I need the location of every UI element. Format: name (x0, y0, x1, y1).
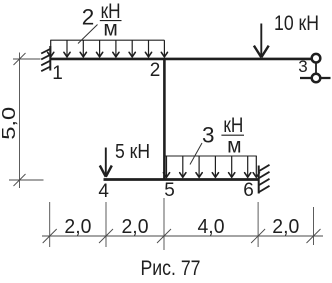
svg-text:2: 2 (150, 60, 161, 81)
svg-text:м: м (227, 135, 241, 158)
pointer line for 3 kN/m (190, 143, 202, 165)
svg-text:2: 2 (82, 5, 95, 30)
vertical member 2-5 (163, 58, 166, 181)
link support node 3: link bar (315, 58, 317, 78)
svg-text:кН: кН (223, 114, 243, 137)
svg-text:5 кН: 5 кН (115, 141, 150, 163)
svg-text:1: 1 (52, 63, 63, 84)
svg-text:Рис. 77: Рис. 77 (141, 257, 201, 278)
svg-text:3: 3 (202, 123, 215, 148)
link support node 3: ground line (300, 77, 331, 79)
force 5 kN arrow (100, 148, 112, 177)
svg-text:3: 3 (298, 57, 307, 76)
force 10 kN arrow (254, 24, 269, 58)
fixed support node 1 (41, 46, 50, 71)
svg-text:2,0: 2,0 (272, 216, 299, 238)
svg-text:5: 5 (164, 180, 175, 201)
svg-text:5,0: 5,0 (0, 107, 19, 140)
link support node 3: lower hinge (312, 74, 321, 83)
svg-text:4: 4 (98, 181, 109, 202)
distributed load 3 kN/m top line (164, 155, 256, 157)
vertical dimension 5,0 (9, 53, 44, 189)
svg-text:10 кН: 10 кН (274, 12, 319, 35)
distributed load 3 kN/m arrows (167, 156, 257, 177)
svg-text:2,0: 2,0 (64, 216, 91, 238)
svg-text:2,0: 2,0 (122, 216, 149, 238)
svg-text:4,0: 4,0 (198, 216, 225, 238)
pointer line for 2 kN/m (78, 25, 98, 44)
svg-text:6: 6 (243, 180, 254, 201)
top beam 1-2-3 (50, 58, 312, 61)
distributed load 2 kN/m arrows (51, 40, 165, 56)
lower beam 4-5-6 (104, 178, 259, 181)
distributed load 2 kN/m top line (50, 39, 164, 41)
svg-text:м: м (103, 17, 117, 40)
bottom dimension line (42, 198, 323, 250)
fixed support node 6 (259, 165, 270, 194)
link support node 3: upper hinge (312, 54, 321, 63)
